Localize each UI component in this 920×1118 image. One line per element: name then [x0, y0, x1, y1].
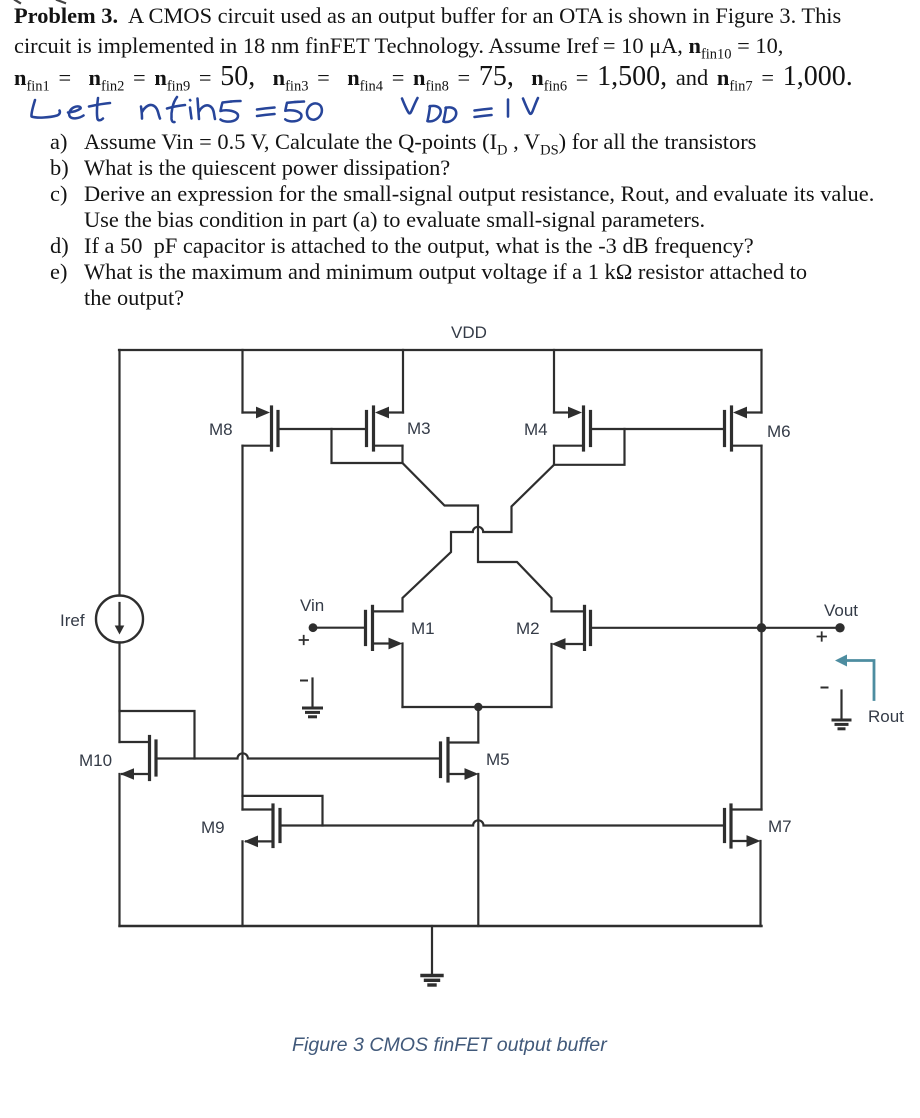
- wire M3 diode connection: [332, 429, 403, 463]
- transistor M5: [441, 739, 479, 782]
- wire M9 diode connection: [243, 796, 323, 826]
- wire VDD to M3 source: [402, 350, 404, 413]
- page text block: [14, 3, 841, 29]
- handwriting Let: [31, 98, 110, 120]
- wire M4 drain to M1 drain (cross with hop): [403, 446, 555, 612]
- wire M2 source to tail: [550, 644, 552, 707]
- svg-text:M3: M3: [407, 419, 431, 438]
- wire Iref to M10 drain: [118, 643, 120, 743]
- wire tail node: [403, 706, 552, 708]
- wire M7 source to ground rail: [759, 841, 761, 926]
- node junction M6 drain / Vout: [757, 623, 766, 632]
- ground rail: [120, 925, 762, 927]
- wire M10 source to ground rail: [118, 774, 120, 926]
- transistor M9: [243, 805, 281, 847]
- node tail junction: [474, 703, 482, 711]
- handwriting VDD = 1V: [402, 98, 538, 122]
- handwriting n fin 5 = 50: [141, 97, 322, 122]
- wire VDD to M8 source: [241, 350, 243, 413]
- svg-text:Vin: Vin: [300, 596, 324, 615]
- svg-text:M10: M10: [79, 751, 112, 770]
- node Vin terminal: [309, 623, 318, 632]
- wire M10 diode connection: [120, 711, 195, 759]
- transistor M10: [120, 737, 157, 780]
- svg-text:M8: M8: [209, 420, 233, 439]
- ground symbol at Vin source: [301, 679, 322, 717]
- wire M1 source to tail: [401, 644, 403, 708]
- svg-text:M2: M2: [516, 619, 540, 638]
- wire M6 drain to M7 drain through Vout: [760, 446, 762, 810]
- wire gate M8-M3: [278, 428, 367, 430]
- wire VDD to Iref: [118, 350, 120, 596]
- svg-text:M1: M1: [411, 619, 435, 638]
- svg-text:M6: M6: [767, 422, 791, 441]
- svg-text:M9: M9: [201, 818, 225, 837]
- handwritten annotation: Let n fin 5 = 50 VDD = 1V: [31, 97, 538, 122]
- transistor M6: [725, 407, 762, 450]
- Rout probe arrow: [835, 655, 874, 700]
- plus label Vin: [300, 636, 309, 644]
- schematic labels: [60, 323, 904, 837]
- wire M3 drain to M2 drain (cross): [403, 446, 552, 612]
- page edge remnant marks (decorative): [15, 0, 65, 3]
- VDD rail: [119, 349, 762, 351]
- transistor M3: [367, 407, 404, 450]
- transistor M8: [243, 407, 279, 450]
- transistor M7: [725, 805, 762, 847]
- wire gate M4-M6: [591, 428, 725, 430]
- ground symbol bottom: [422, 926, 442, 985]
- node Vout terminal: [835, 623, 844, 632]
- svg-text:VDD: VDD: [451, 323, 487, 342]
- figure caption: [292, 1032, 607, 1058]
- wire M5 source to ground rail: [477, 774, 479, 926]
- wire VDD to M6 source: [760, 350, 762, 413]
- wire M2 gate to Vout: [591, 627, 841, 629]
- ground symbol at Rout: [822, 688, 851, 729]
- svg-text:Iref: Iref: [60, 611, 85, 630]
- current source Iref: [96, 596, 143, 643]
- wire Vin to M1 gate: [313, 627, 366, 629]
- wire M9 source to ground rail: [241, 841, 243, 926]
- plus label Vout: [818, 632, 827, 640]
- wire M4 diode connection: [554, 429, 625, 465]
- wire tail to M5 drain: [477, 707, 479, 743]
- svg-text:Vout: Vout: [824, 601, 858, 620]
- wire VDD to M4 source: [553, 350, 555, 413]
- svg-text:M4: M4: [524, 420, 548, 439]
- transistor M2: [552, 606, 591, 650]
- svg-text:M7: M7: [768, 817, 792, 836]
- transistor M4: [554, 407, 591, 450]
- wire gate bus M9/M7 with hop: [280, 820, 725, 825]
- wire gate bus M10/M5 with hop: [156, 753, 441, 758]
- transistor M1: [366, 606, 403, 649]
- wire M8 drain down to M9 drain: [241, 446, 243, 810]
- svg-text:M5: M5: [486, 750, 510, 769]
- svg-text:Rout: Rout: [868, 707, 904, 726]
